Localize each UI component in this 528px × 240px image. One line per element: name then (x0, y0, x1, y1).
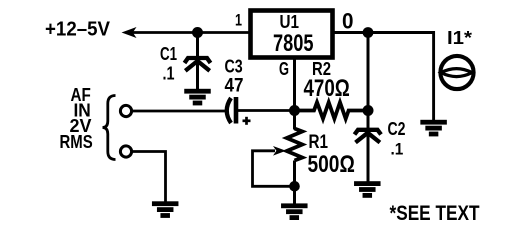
op-amp U1 regulator box (251, 11, 333, 58)
node C: junction G / R2 / R1 (289, 105, 300, 116)
potentiometer R1 (287, 129, 303, 161)
svg-text:C1: C1 (160, 44, 177, 64)
plus sign of C3 (243, 117, 251, 125)
wire: node C down to R1 (293, 111, 296, 130)
capacitor C1 (185, 35, 211, 90)
wire: jack to C3 (132, 110, 226, 113)
svg-text:.1: .1 (391, 140, 404, 159)
ground (below C2) (354, 181, 381, 198)
svg-text:470Ω: 470Ω (304, 75, 350, 102)
ground (below C1) (184, 89, 211, 106)
ground (below shield jack) (152, 201, 179, 218)
svg-text:*SEE TEXT: *SEE TEXT (390, 202, 480, 225)
node A: junction of rail and C1 (192, 27, 203, 38)
wire: wiper loop to bottom of R1 (253, 151, 295, 187)
svg-text:1: 1 (235, 11, 242, 30)
wire: R1 bottom to ground (293, 161, 296, 204)
ground (below R1) (281, 203, 308, 220)
capacitor C3 (electrolytic) (227, 97, 236, 124)
svg-text:+12–5V: +12–5V (45, 19, 111, 41)
input jack J1 (shield) (120, 146, 131, 157)
wire: C3 to node C (238, 109, 296, 112)
wire: +12V rail from arrow to U1 input (130, 31, 250, 34)
svg-text:R1: R1 (309, 132, 329, 153)
node B: output junction (363, 27, 374, 38)
wiper arrow of R1 (273, 146, 286, 156)
input jack J1 (hot) (120, 105, 131, 116)
wire: shield jack to ground (132, 152, 166, 202)
wire: G pin down to node C (293, 57, 296, 111)
svg-text:C2: C2 (388, 119, 406, 139)
arrow to supply (+12-5V) (122, 27, 137, 38)
wire: node B down through node D to C2 (367, 33, 370, 129)
wire: U1 output to lamp branch (334, 33, 434, 121)
node D: junction R2 / C2 / output (363, 105, 374, 116)
svg-text:I1*: I1* (447, 27, 473, 48)
svg-text:RMS: RMS (60, 131, 93, 152)
resistor R2 (298, 102, 364, 118)
svg-text:7805: 7805 (273, 30, 314, 57)
lamp I1 (440, 56, 473, 89)
svg-text:500Ω: 500Ω (308, 151, 355, 178)
node E: wiper tie junction (289, 181, 300, 192)
svg-text:47: 47 (225, 74, 244, 96)
svg-text:G: G (279, 58, 289, 79)
svg-text:0: 0 (342, 8, 354, 33)
ground (below lamp) (420, 120, 447, 137)
capacitor C2 (355, 130, 382, 182)
svg-text:.1: .1 (163, 64, 175, 84)
brace for input pair (103, 96, 116, 160)
